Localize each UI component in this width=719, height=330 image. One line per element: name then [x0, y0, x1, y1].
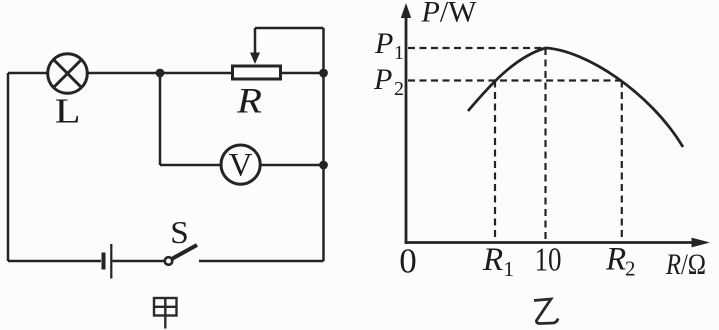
svg-text:P: P — [373, 63, 392, 96]
svg-text:S: S — [170, 214, 189, 250]
label jia (甲) — [154, 298, 177, 329]
node B junction dot top right — [319, 69, 328, 78]
y-axis P — [401, 3, 411, 244]
dashed line R2 vertical — [621, 81, 623, 242]
wire bottom left to battery — [8, 260, 101, 263]
battery cell — [102, 244, 113, 279]
node A junction dot left — [156, 69, 165, 78]
wire lamp to rheostat — [89, 72, 233, 75]
x-axis R — [405, 238, 710, 248]
svg-text:P/W: P/W — [421, 0, 478, 29]
wire voltmeter branch vertical — [159, 73, 162, 165]
label yi (乙) — [534, 299, 558, 324]
wire switch to right vertical — [199, 260, 324, 263]
svg-text:R: R — [605, 242, 626, 278]
lamp L — [48, 54, 88, 94]
wire voltmeter branch horizontal left — [160, 164, 221, 167]
svg-text:1: 1 — [504, 257, 515, 281]
resistor R (rheostat body) — [233, 66, 281, 79]
dashed line P1 horizontal — [408, 47, 546, 49]
svg-text:L: L — [55, 92, 81, 131]
rheostat slider arrow — [250, 28, 260, 64]
svg-text:P: P — [374, 27, 393, 60]
svg-text:R: R — [482, 242, 503, 278]
wire rheostat right to right vertical — [281, 72, 324, 75]
dashed line peak vertical at 10 — [544, 48, 546, 241]
voltmeter V — [221, 145, 260, 184]
wire top left to lamp — [8, 72, 47, 75]
node C junction dot voltmeter right — [319, 161, 328, 170]
wire left vertical — [7, 73, 10, 261]
svg-text:10: 10 — [535, 242, 562, 279]
svg-text:2: 2 — [625, 257, 636, 281]
svg-text:0: 0 — [399, 242, 417, 281]
svg-text:R/Ω: R/Ω — [665, 248, 706, 281]
wire slider top return — [255, 27, 324, 30]
wire battery to switch — [113, 260, 165, 263]
dashed line P2 horizontal — [408, 79, 622, 81]
switch S — [165, 245, 197, 265]
curve P vs R — [468, 48, 683, 147]
wire voltmeter to right vertical — [262, 164, 324, 167]
dashed line R1 vertical — [494, 81, 496, 242]
svg-text:R: R — [236, 81, 262, 121]
svg-text:1: 1 — [394, 42, 404, 64]
wire right vertical — [322, 28, 325, 261]
svg-text:V: V — [229, 148, 253, 184]
svg-text:2: 2 — [394, 78, 404, 100]
